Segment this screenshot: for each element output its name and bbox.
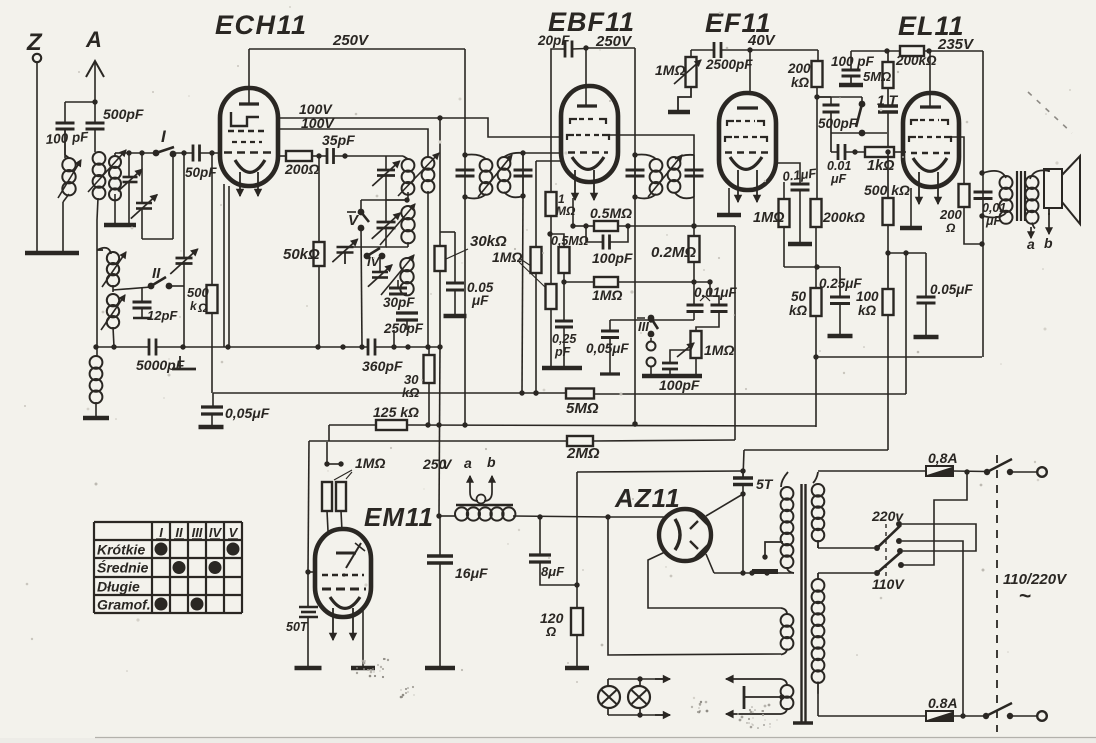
node IF1 left top xyxy=(462,152,467,157)
mains boundary dashed xyxy=(996,455,998,732)
svg-text:Długie: Długie xyxy=(97,579,140,595)
capacitor 0.25uF xyxy=(819,267,862,304)
resistor 500k ohm 3 xyxy=(864,152,910,225)
resistor 30k ohm 2 xyxy=(402,347,435,425)
capacitor 0.05uF AVC xyxy=(201,393,270,426)
svg-text:35pF: 35pF xyxy=(322,132,355,148)
wire EL11 cathode ground xyxy=(910,188,912,226)
tube label EM11 xyxy=(364,502,434,532)
svg-text:1kΩ: 1kΩ xyxy=(867,158,895,174)
cathode EBF11 xyxy=(572,157,604,169)
svg-text:500pF: 500pF xyxy=(818,116,858,131)
AZ11 filament arc xyxy=(675,519,680,550)
wire 2M line left xyxy=(309,440,567,442)
capacitor 500pF xyxy=(86,102,144,129)
label 220V xyxy=(871,508,904,524)
heater arrows EL11 xyxy=(916,172,942,204)
svg-text:0,05μF: 0,05μF xyxy=(586,341,629,356)
variable capacitor padder xyxy=(170,249,198,274)
wire 1M to ground xyxy=(678,87,691,111)
label 250V psu xyxy=(422,456,453,472)
switch V xyxy=(347,209,369,232)
wire mains tap upper xyxy=(818,545,874,548)
resistor 1M var xyxy=(655,57,701,87)
label 110V xyxy=(872,576,905,592)
capacitor 2500pF xyxy=(705,42,753,72)
wire bias bus left drop xyxy=(328,425,330,441)
ground tuned circuit 1 xyxy=(104,223,136,228)
wire AZ11 heater loop xyxy=(648,552,781,608)
node output top xyxy=(979,170,984,175)
svg-text:Krótkie: Krótkie xyxy=(97,542,145,558)
svg-text:0,8A: 0,8A xyxy=(928,450,958,466)
grid structure ECH11 xyxy=(224,112,272,153)
selector contact D xyxy=(898,562,904,568)
wire fuse2 to switch xyxy=(953,713,986,718)
svg-text:250V: 250V xyxy=(332,32,370,49)
wire A to 100pF branch xyxy=(65,102,95,123)
ground 0.1uF xyxy=(788,242,812,247)
transformer mains lower xyxy=(812,573,825,694)
capacitor 100pF xyxy=(45,123,89,147)
output transformer core xyxy=(1017,171,1025,221)
svg-text:b: b xyxy=(487,454,496,470)
capacitor 100pF sg xyxy=(831,51,875,84)
resistor 0.5M vertical xyxy=(551,234,589,273)
wire mains bottom xyxy=(818,693,926,716)
wire 5T top xyxy=(743,450,744,478)
voltage selector switch 2 xyxy=(874,548,903,576)
grid rows EBF11 xyxy=(567,119,609,153)
svg-text:a: a xyxy=(464,455,472,471)
svg-text:360pF: 360pF xyxy=(362,358,403,374)
capacitor 35pF xyxy=(322,132,355,164)
svg-text:50T: 50T xyxy=(286,620,309,634)
fuse 0.8A bottom xyxy=(926,695,958,721)
resistor 200k ohm 2 xyxy=(811,199,866,227)
svg-text:100pF: 100pF xyxy=(592,250,633,266)
voltage selector switch 1 xyxy=(874,521,902,551)
wire 8uF down xyxy=(540,562,580,588)
node IF2 left bottom xyxy=(632,194,637,199)
svg-text:40V: 40V xyxy=(747,32,777,49)
svg-text:EL11: EL11 xyxy=(898,11,965,41)
svg-text:0.05μF: 0.05μF xyxy=(930,282,973,297)
pickup loop xyxy=(477,495,486,504)
wire heater supply line xyxy=(577,468,746,473)
svg-text:b: b xyxy=(1044,235,1053,251)
resistor 200 ohm 2 xyxy=(939,184,970,235)
capacitor IF2 left xyxy=(626,155,645,197)
svg-text:250pF: 250pF xyxy=(383,321,424,336)
resistor 1M EM11 a xyxy=(322,482,332,531)
svg-text:ECH11: ECH11 xyxy=(215,10,308,40)
wire 0.25uF to ground xyxy=(839,304,841,335)
wire tap D up xyxy=(903,473,967,565)
wire L3 bottom xyxy=(114,194,116,224)
grid rows EF11 xyxy=(725,121,768,153)
tube EL11 envelope xyxy=(903,93,959,187)
wire af line xyxy=(816,356,982,358)
wire AVC 0.5M line xyxy=(570,223,588,228)
wire switch to terminal top xyxy=(1010,471,1037,473)
capacitor 8uF xyxy=(529,517,565,579)
capacitor 30pF xyxy=(383,280,415,310)
AZ11 anode plates xyxy=(690,511,709,559)
terminal circle bottom xyxy=(1037,711,1047,721)
svg-text:~: ~ xyxy=(1019,585,1031,608)
capacitor 100pF af xyxy=(659,350,700,393)
wire B+ line xyxy=(436,513,610,519)
wire ECH11 triode leads down xyxy=(224,184,229,347)
wire AVC line left xyxy=(213,392,522,394)
ground 0.05uF xyxy=(199,425,224,430)
svg-text:I: I xyxy=(159,525,163,540)
tube EF11 envelope xyxy=(719,93,776,190)
wire heater winding return xyxy=(608,517,781,655)
resistor 1M ohm horizontal xyxy=(592,277,622,303)
svg-text:1MΩ: 1MΩ xyxy=(753,210,785,226)
svg-text:2MΩ: 2MΩ xyxy=(566,445,600,462)
switch I xyxy=(153,127,177,157)
wire switch V top xyxy=(361,200,407,212)
svg-text:0,05μF: 0,05μF xyxy=(225,405,270,421)
svg-text:5T: 5T xyxy=(756,476,774,492)
tube label EL11 xyxy=(898,11,965,41)
ground 0.25uF xyxy=(828,334,853,339)
ground 0.05uF osc xyxy=(444,290,467,316)
wire cathode stub EBF11 xyxy=(572,198,574,226)
svg-text:5MΩ: 5MΩ xyxy=(566,400,599,417)
svg-text:A: A xyxy=(85,27,102,52)
label 40V xyxy=(747,32,777,49)
heater arrows ECH11 xyxy=(237,172,262,196)
wire 0.01 to 1k xyxy=(845,149,865,154)
wire grid EL11 line xyxy=(831,151,839,153)
svg-text:100pF: 100pF xyxy=(659,377,700,393)
svg-text:III: III xyxy=(638,319,649,334)
resistor 5M ohm xyxy=(863,51,894,88)
wire EM11 target xyxy=(305,569,316,574)
EM11 internals xyxy=(322,543,366,589)
wire L1 to ground xyxy=(63,194,69,251)
wire tank1 bottom xyxy=(386,176,410,203)
wire IF1 secondary top to EBF11 grid xyxy=(523,152,563,154)
dial lamp 2 xyxy=(628,679,650,715)
wire AVC bus 2 xyxy=(522,390,566,395)
svg-text:110/220V: 110/220V xyxy=(1003,571,1068,588)
wire 0.25 to ground xyxy=(563,327,565,366)
capacitor 100pF parallel xyxy=(586,226,633,266)
wire ECH11 triode grid out xyxy=(276,155,286,157)
svg-text:30pF: 30pF xyxy=(383,295,415,310)
wire HT bottom xyxy=(714,572,794,574)
svg-text:8μF: 8μF xyxy=(541,564,565,579)
output transformer primary xyxy=(983,171,1013,224)
resistor 100k ohm xyxy=(856,253,894,318)
wire band wire xyxy=(121,150,156,155)
variable capacitor osc tank1 xyxy=(372,156,400,186)
trimmer capacitor T1 xyxy=(118,153,142,191)
svg-text:50: 50 xyxy=(791,289,807,304)
variable capacitor tank3 trim xyxy=(332,239,357,264)
resistor 125k ohm xyxy=(373,404,419,430)
wire 5T bottom xyxy=(740,485,745,497)
svg-text:Średnie: Średnie xyxy=(97,559,149,576)
ground 16uF xyxy=(425,666,455,671)
wire tap B down xyxy=(902,541,963,714)
svg-text:a: a xyxy=(1027,236,1035,252)
svg-text:1MΩ: 1MΩ xyxy=(355,455,385,471)
node output bottom xyxy=(979,213,984,218)
resistor 120 ohm xyxy=(540,472,583,639)
capacitor 12pF xyxy=(133,288,179,323)
wire 1T down xyxy=(887,112,889,152)
wire pot to ground xyxy=(695,358,697,375)
resistor 1M EM11 b xyxy=(336,482,346,531)
wire IF1 right down to AVC xyxy=(519,196,524,396)
coil L5 osc feedback xyxy=(101,294,125,330)
wire L2 bottom down xyxy=(97,198,98,347)
svg-text:AZ11: AZ11 xyxy=(614,483,681,513)
svg-text:IV: IV xyxy=(209,525,223,540)
transformer heater winding xyxy=(781,608,794,655)
node Z antenna terminal xyxy=(26,29,43,62)
svg-text:5MΩ: 5MΩ xyxy=(863,69,891,84)
wire 200k1 down xyxy=(814,87,819,199)
coil L7 osc tank1 xyxy=(402,156,415,195)
ground 1M EF11 xyxy=(668,110,690,115)
label 100V upper xyxy=(299,101,333,117)
label 1M ohm EM11 xyxy=(334,455,385,480)
wire 2500pF to anode node xyxy=(721,47,818,52)
wire padder line down xyxy=(183,153,185,258)
mains switch top xyxy=(984,459,1013,475)
wire padder to bus xyxy=(183,264,185,348)
transformer HT tap xyxy=(762,542,783,560)
tube EBF11 envelope xyxy=(561,86,618,182)
wire 0.1 to ground xyxy=(799,190,801,242)
wire 40V node xyxy=(691,50,715,57)
ground 0.05uF EL11 xyxy=(914,303,939,337)
coil L4 osc xyxy=(97,248,126,287)
wire AVC down right xyxy=(734,226,736,440)
svg-text:kΩ: kΩ xyxy=(402,385,419,400)
wire AVC bus 3 xyxy=(594,393,906,395)
ground pot and jacks xyxy=(642,374,702,379)
wire EF11 screen to 0.1uF xyxy=(775,163,800,184)
svg-text:500pF: 500pF xyxy=(103,106,144,122)
capacitor 1T xyxy=(877,88,899,112)
grid rows EL11 xyxy=(909,120,951,153)
capacitor 0.05uF osc xyxy=(440,232,494,308)
wire tone line xyxy=(831,132,887,134)
coil L1 antenna input xyxy=(58,129,81,198)
capacitor 5T xyxy=(733,476,774,492)
resistor 500k ohm osc grid leak xyxy=(187,153,218,315)
wire 500k down to AVC bus xyxy=(211,313,213,393)
svg-text:100 pF: 100 pF xyxy=(831,54,875,69)
coil L9 osc tank2 xyxy=(380,204,415,245)
resistor 0.5M ohm horizontal xyxy=(586,205,632,231)
coil L8 osc tank1 xyxy=(398,153,439,196)
wire 5T to HT centre xyxy=(740,494,745,576)
anode bar ECH11 xyxy=(239,102,259,105)
svg-text:EM11: EM11 xyxy=(364,502,434,532)
coil L2 primary xyxy=(93,152,106,199)
wire 1M pair feed xyxy=(324,442,343,467)
wire mains top line xyxy=(818,470,926,472)
capacitor 5000pF xyxy=(136,339,196,374)
capacitor 250pF xyxy=(383,313,424,347)
antenna A arrow symbol xyxy=(86,61,104,102)
wire bias bus xyxy=(329,424,376,426)
ground 50T xyxy=(295,666,322,671)
wire EF11 anode xyxy=(749,50,751,95)
capacitor IF1 left xyxy=(456,170,475,176)
wire 0.5M to right xyxy=(618,223,735,228)
node junction A xyxy=(92,99,97,104)
wire 20pF left down xyxy=(551,49,565,190)
coil IF1 secondary xyxy=(478,153,523,198)
capacitor 50pF grid xyxy=(185,145,217,181)
switch tone xyxy=(817,97,865,136)
svg-text:500: 500 xyxy=(187,285,209,300)
svg-text:200: 200 xyxy=(939,207,962,222)
node IF1 left bottom xyxy=(462,194,467,199)
svg-text:V: V xyxy=(229,525,239,540)
wire bus right xyxy=(375,344,441,349)
resistor 50k ohm xyxy=(283,156,325,266)
wire 100pF to coil xyxy=(64,129,66,158)
filter choke coil xyxy=(455,507,515,520)
wire L3 top to band switch wire xyxy=(115,153,121,156)
pickup terminal b xyxy=(484,454,496,501)
svg-text:0.01μF: 0.01μF xyxy=(694,285,737,300)
wire 250V rail xyxy=(249,48,465,50)
wire ECH11 anode to 250V rail xyxy=(248,49,250,104)
coil L6 bottom xyxy=(90,347,103,403)
wire 100k down to 5T line xyxy=(887,315,889,450)
wire 235V rail xyxy=(924,48,983,173)
mains switch bottom xyxy=(983,703,1013,719)
wire EL11 anode xyxy=(929,51,931,107)
resistor 0.2M ohm xyxy=(651,236,700,262)
svg-text:pF: pF xyxy=(554,345,571,359)
wire bias down xyxy=(905,253,907,394)
wire oscillator bus xyxy=(93,344,185,349)
fil winding centre tap xyxy=(744,686,785,709)
wire 50k2 down xyxy=(813,316,818,427)
wire output rail xyxy=(982,173,984,357)
capacitor 0.01uF right xyxy=(710,282,728,312)
svg-text:μF: μF xyxy=(830,172,847,186)
wire 1M g to node xyxy=(784,227,840,270)
wire detector lower to ground xyxy=(550,309,552,366)
wire 1M to 0.5M node xyxy=(547,216,552,284)
cathode EF11 xyxy=(730,157,762,169)
ground detector xyxy=(542,366,582,371)
svg-text:100 pF: 100 pF xyxy=(45,129,89,147)
wire 0.2M to det line xyxy=(693,262,695,305)
wire anode node to IF2 xyxy=(586,48,635,155)
tube label AZ11 xyxy=(614,483,681,513)
wire L6 to ground xyxy=(95,402,97,417)
svg-text:1MΩ: 1MΩ xyxy=(492,249,522,265)
wire AZ11 plate bottom xyxy=(706,554,714,573)
wire 100V line 1 xyxy=(276,115,563,137)
switch III xyxy=(637,315,658,338)
capacitor 50T xyxy=(286,572,318,634)
gramophone jacks xyxy=(647,338,656,375)
capacitor 0.01uF output xyxy=(974,192,1007,228)
capacitor 0.25uF det xyxy=(552,321,577,359)
ground 100pF sg xyxy=(839,83,863,88)
wire switch V bottom down xyxy=(361,228,362,347)
wire 0.01 right to volume pot xyxy=(696,312,719,332)
coil IF2 secondary xyxy=(668,155,694,199)
wire 50k to bus xyxy=(318,266,320,347)
wire fil winding bottom arrow xyxy=(726,710,781,717)
speaker xyxy=(1044,156,1080,224)
svg-text:Ω: Ω xyxy=(545,624,556,639)
wire 200k2 bottom xyxy=(815,227,817,288)
ground 120 ohm xyxy=(565,666,589,671)
wire EM11 frame down xyxy=(308,441,309,572)
selector link dashed xyxy=(885,524,887,576)
wire 100V line 2 xyxy=(276,129,428,157)
svg-text:Gramof.: Gramof. xyxy=(97,597,151,613)
ground EF11 cathode xyxy=(717,213,741,218)
heater arrows EM11 xyxy=(330,608,357,640)
tube label EF11 xyxy=(705,8,772,38)
capacitor IF1 right xyxy=(514,150,533,198)
coil L10 osc tank3 xyxy=(381,255,414,295)
wire 16uF ground xyxy=(439,563,441,666)
wire 200ohm2 down xyxy=(964,207,985,247)
svg-text:200kΩ: 200kΩ xyxy=(822,209,865,225)
label 110/220V xyxy=(1003,571,1068,608)
wire C-tune1 to switch II branch xyxy=(142,157,173,239)
wire 235V feed xyxy=(851,48,900,53)
wire fil winding top arrow xyxy=(726,675,781,682)
ground EL11 cathode xyxy=(900,226,922,231)
wire lamp bottom xyxy=(608,712,670,719)
wire EM11 right lead xyxy=(362,606,364,666)
svg-text:Ω: Ω xyxy=(197,301,208,315)
svg-text:1MΩ: 1MΩ xyxy=(655,62,685,78)
variable capacitor osc tank3 xyxy=(368,256,392,287)
wire 1M det line xyxy=(564,279,713,284)
wire tank2 bottom xyxy=(345,228,408,247)
svg-text:1MΩ: 1MΩ xyxy=(704,342,734,358)
wire fuse to switch xyxy=(953,469,987,474)
potentiometer 1M volume xyxy=(677,331,734,358)
wire EF11 cathode xyxy=(728,188,730,213)
wire AZ11 plate top xyxy=(706,494,743,516)
variable capacitor C-tune1 xyxy=(131,153,157,219)
ground EM11 xyxy=(351,666,375,671)
wire IF2 right down xyxy=(691,197,696,236)
ground L6 xyxy=(83,416,109,421)
svg-text:0.5MΩ: 0.5MΩ xyxy=(590,205,632,221)
svg-text:kΩ: kΩ xyxy=(789,303,808,318)
wire bias tap xyxy=(888,250,926,255)
wire bias bus 2 xyxy=(407,421,816,427)
svg-text:5000pF: 5000pF xyxy=(136,357,185,373)
svg-text:0.01: 0.01 xyxy=(827,159,851,173)
resistor 200k ohm 3 xyxy=(895,46,937,68)
